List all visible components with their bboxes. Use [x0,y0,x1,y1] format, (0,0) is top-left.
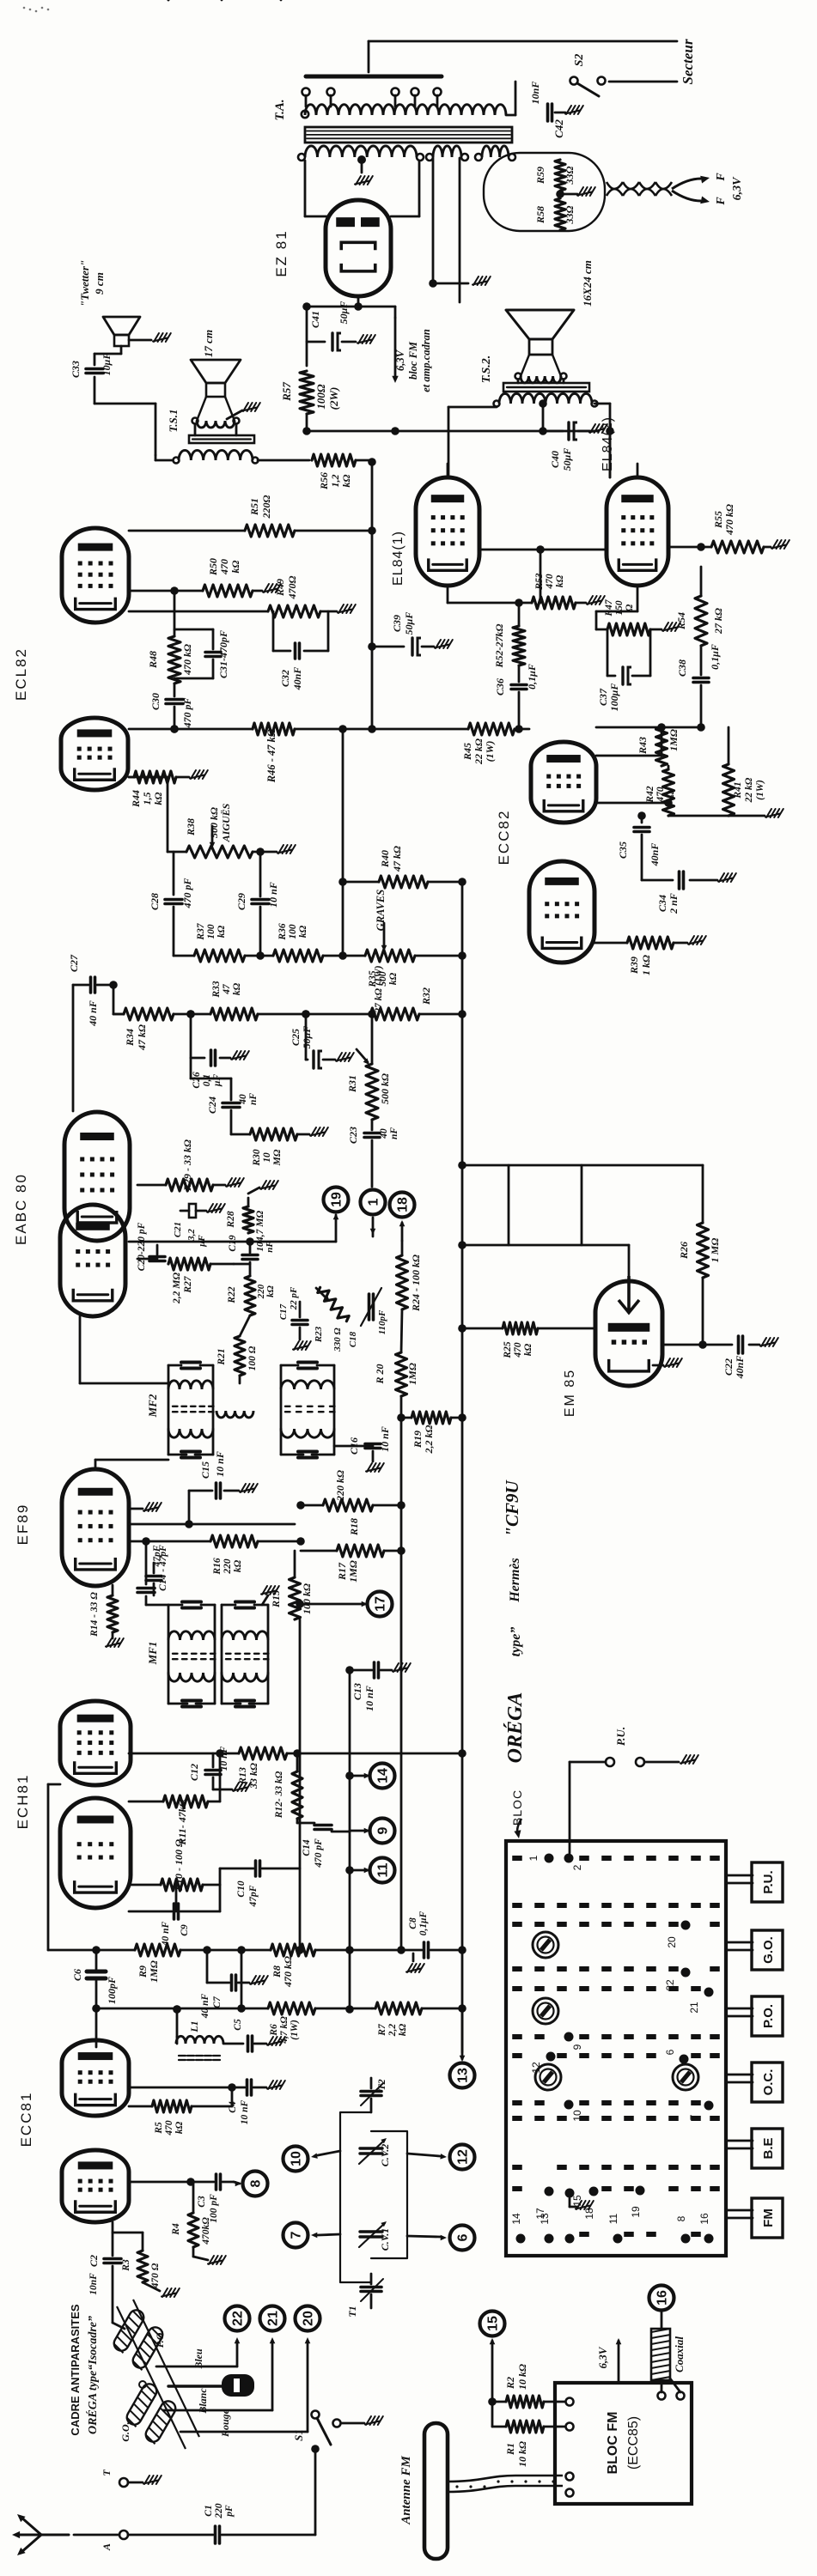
wire bus y1357 [458,878,703,2052]
wire B+ rail [302,427,597,435]
capacitor 47pF [146,1545,162,1595]
svg-text:R32: R32 [420,987,432,1005]
svg-text:C30: C30 [149,693,162,710]
node 19 [129,1188,349,1246]
resistor R46 [253,723,295,783]
resistor R32 [370,965,462,1020]
capacitor C15 [189,1451,258,1498]
svg-text:C39: C39 [391,615,403,632]
svg-text:C8: C8 [408,1917,418,1929]
svg-text:kΩ: kΩ [340,474,352,487]
resistor R16 [129,1535,305,1576]
svg-text:R58: R58 [534,206,546,224]
svg-text:R19: R19 [412,1431,424,1449]
svg-text:R14 - 33 Ω: R14 - 33 Ω [89,1592,100,1637]
svg-text:12: 12 [530,2062,542,2074]
svg-text:C23: C23 [347,1127,359,1144]
label EZ81 [273,229,290,276]
vertical bus x433 [371,460,374,729]
svg-text:R37: R37 [196,922,206,940]
svg-text:(2W): (2W) [327,387,340,410]
svg-text:R17: R17 [336,1562,348,1581]
svg-text:19: 19 [330,1192,344,1207]
speaker 16x24 frame [515,355,567,383]
variable C.V.1 [359,2221,391,2251]
node 15 [480,2312,505,2403]
svg-text:MΩ: MΩ [272,1149,283,1166]
svg-text:A: A [101,2543,113,2551]
resistor R55 [668,504,790,553]
svg-text:6,3V: 6,3V [731,176,744,201]
tube EF89 [62,1469,129,1586]
svg-text:13: 13 [456,2068,471,2083]
resistor R5 [129,2087,232,2136]
svg-text:ECH81: ECH81 [15,1774,31,1830]
svg-text:R11- 47kΩ: R11- 47kΩ [176,1799,188,1845]
capacitor C40 [543,422,607,471]
svg-text:6,3V: 6,3V [394,349,406,371]
svg-text:R24 - 100 kΩ: R24 - 100 kΩ [410,1255,422,1312]
ground R49 [320,605,356,613]
capacitor C30 [149,683,193,733]
svg-text:R36: R36 [277,923,288,940]
svg-text:10 nF: 10 nF [379,1426,391,1452]
transformer T.S.1 winding [174,450,259,463]
svg-text:R52-27kΩ: R52-27kΩ [493,623,505,668]
capacitor C6 [71,1946,118,2013]
svg-text:C42: C42 [552,119,565,138]
capacitor C20 [137,1222,165,1271]
svg-text:R56: R56 [318,472,330,490]
svg-text:7: 7 [688,2114,700,2120]
svg-text:27 kΩ (1W): 27 kΩ (1W) [374,965,384,1013]
wire R26 bottom [698,1278,707,1349]
svg-text:C14: C14 [302,1839,312,1856]
svg-text:10 nF: 10 nF [240,2099,250,2124]
switch S1 [292,2411,383,2536]
svg-text:7: 7 [290,2231,304,2239]
scan specks [23,7,50,13]
svg-text:R9: R9 [137,1965,149,1978]
wire ECC81 plate [95,2008,98,2047]
wire blanc [163,2337,275,2415]
antenna [12,2514,69,2555]
capacitor C39 [368,612,453,655]
svg-text:470 pF: 470 pF [181,697,193,728]
svg-text:19: 19 [630,2206,642,2218]
wire heater loop [484,153,605,231]
svg-text:40 nF: 40 nF [200,1993,210,2019]
svg-text:1: 1 [367,1198,381,1206]
label Antenne FM [399,2456,413,2525]
svg-text:BLOC: BLOC [510,1789,524,1826]
capacitor C10 [220,1861,300,1907]
svg-text:"CF9U: "CF9U [502,1479,522,1536]
resistor R31 pot [346,1010,391,1120]
node 16 [649,2286,674,2330]
svg-text:ECC81: ECC81 [18,2092,34,2148]
svg-text:50μF: 50μF [403,612,415,635]
svg-text:470: 470 [655,787,666,803]
capacitor C4 [129,2080,285,2124]
svg-text:MF1: MF1 [146,1642,159,1666]
speaker tweeter [103,317,140,346]
vertical x349 [300,1396,405,1954]
transformer T.S.2 core [503,380,589,392]
node 17 [296,1592,392,1617]
svg-text:kΩ: kΩ [152,792,164,805]
svg-text:G.O.: G.O. [761,1936,776,1964]
svg-text:R53: R53 [534,573,545,590]
label T.S.1 [167,410,180,433]
svg-text:R8: R8 [271,1965,283,1978]
wire rouge [180,2337,310,2438]
trimmer T1 [346,2274,383,2318]
ground heater [556,187,595,198]
ground tap [355,155,373,185]
svg-text:1,5: 1,5 [141,793,153,805]
capacitor C17 [278,1286,311,1350]
svg-text:C33: C33 [70,361,82,378]
resistor R21 [216,1315,258,1383]
svg-text:Ω: Ω [625,604,635,611]
svg-text:470 pF: 470 pF [314,1838,324,1868]
svg-text:C13: C13 [351,1683,363,1700]
svg-text:10μF: 10μF [101,353,113,376]
ground R50 [253,584,281,592]
svg-text:R33: R33 [211,981,222,998]
tube EABC80 lower [60,1205,125,1316]
terminals P.U. [570,1727,698,1853]
svg-text:47: 47 [222,983,232,995]
svg-text:L1: L1 [188,2020,200,2032]
svg-text:10: 10 [571,2110,583,2122]
svg-text:C.V.1: C.V.1 [379,2228,391,2251]
svg-text:R59: R59 [534,167,546,185]
svg-text:13: 13 [539,2213,551,2225]
svg-text:R55: R55 [712,511,724,529]
label BLOC FM [606,2412,641,2475]
svg-text:R47: R47 [604,598,614,617]
svg-text:ORÉGA type“Isocadre”: ORÉGA type“Isocadre” [85,2316,100,2434]
svg-text:S2: S2 [573,54,586,67]
svg-text:470Ω: 470Ω [286,575,298,599]
svg-text:BLOC FM: BLOC FM [606,2412,620,2475]
resistor R20 [374,1309,418,1396]
svg-text:2 nF: 2 nF [668,893,680,914]
resistor R54 [675,567,724,646]
transformer T.S.1 core [189,424,254,443]
svg-text:kΩ: kΩ [216,925,227,938]
svg-text:16: 16 [698,2213,710,2225]
svg-text:C1: C1 [204,2505,214,2516]
resistor R45 [461,723,515,765]
svg-text:20: 20 [666,1936,678,1948]
svg-text:G.O.: G.O. [119,2421,131,2441]
capacitor C28 [149,852,193,956]
svg-text:R38: R38 [185,818,197,836]
capacitor C42 [529,82,583,138]
capacitor C32 branch [273,611,328,690]
antenne FM feeder [448,2476,563,2492]
resistor R47 [596,588,680,635]
capacitor C36 [494,664,538,733]
svg-text:17: 17 [374,1596,388,1612]
svg-text:R54: R54 [675,612,687,630]
capacitor C8 [350,1911,466,1972]
svg-text:220: 220 [223,1558,233,1575]
node 11 [345,1858,394,1883]
svg-text:S1: S1 [292,2429,305,2441]
svg-text:B.E: B.E [761,2137,776,2159]
tube ECC81 lower [62,2150,129,2222]
resistor R12 [274,1753,302,1819]
ground tweeter [129,333,171,342]
svg-text:R50: R50 [207,558,219,576]
CV frame [340,2112,407,2282]
label ECC82 [496,810,512,866]
capacitor C27 [68,954,113,1111]
svg-text:50μF: 50μF [561,448,573,471]
svg-text:100: 100 [288,924,298,939]
svg-text:C31-470pF: C31-470pF [217,630,229,678]
resistor R11 [129,1753,220,1846]
resistor R40 [343,846,462,888]
svg-text:T2: T2 [375,2079,387,2090]
resistor R29 [137,1139,244,1192]
variable C.V.2 [359,2138,391,2166]
tube EL84(2) [607,477,668,586]
ground 17cm [227,403,260,419]
svg-text:C7: C7 [212,1996,223,2008]
svg-text:22 kΩ: 22 kΩ [473,738,485,765]
T.A. core [305,127,512,143]
svg-text:11: 11 [607,2213,619,2224]
svg-text:9: 9 [376,1826,391,1834]
label CADRE [69,2304,100,2435]
wire ECL82 plate [129,526,376,535]
svg-text:470: 470 [164,2120,174,2136]
svg-text:C2: C2 [88,2255,100,2267]
svg-text:R45: R45 [461,743,473,761]
wire R57 bottom [306,414,308,431]
wire B+ bus [302,302,395,366]
wire EL84 plates top [448,464,637,603]
T.A. secondary 6.3V [426,146,468,161]
svg-text:15: 15 [486,2316,501,2331]
svg-text:220Ω: 220Ω [260,495,272,519]
svg-text:C27: C27 [68,954,80,972]
ground EM85 [653,1358,682,1367]
svg-text:40: 40 [379,1128,389,1139]
svg-text:"Twetter": "Twetter" [78,260,91,307]
svg-text:R39: R39 [628,957,640,975]
node 14 [345,1764,394,1789]
resistor R43 [637,727,680,766]
resistor R17 [301,1545,401,1583]
svg-text:50μF: 50μF [338,301,350,325]
svg-text:C36: C36 [494,678,506,696]
svg-text:150: 150 [614,600,625,616]
svg-text:R1: R1 [504,2443,516,2456]
svg-text:(ECC85): (ECC85) [626,2416,641,2470]
label 17cm [202,330,215,357]
svg-text:1 kΩ: 1 kΩ [640,955,652,975]
svg-text:12: 12 [456,2149,471,2165]
svg-text:1 MΩ: 1 MΩ [709,1238,721,1263]
svg-text:1MΩ: 1MΩ [347,1560,359,1583]
box B.E. [726,2129,783,2168]
tube EZ81 [326,200,391,296]
svg-text:kΩ: kΩ [233,1559,243,1572]
box P.O. [726,1996,783,2036]
svg-text:P.O.: P.O. [154,2330,166,2348]
svg-text:16X24 cm: 16X24 cm [581,260,594,307]
resistor R9 [48,1784,246,1983]
resistor R35 GRAVES [365,890,462,988]
svg-text:kΩ: kΩ [298,925,308,938]
svg-text:100Ω: 100Ω [314,384,327,410]
capacitor C1 [128,2503,315,2543]
svg-text:1: 1 [527,1855,540,1861]
wire EF89 screen [129,1491,295,1528]
svg-text:kΩ: kΩ [265,1285,276,1297]
svg-text:R 20: R 20 [374,1364,386,1384]
box O.C. [726,2063,783,2102]
terminal T [101,2470,162,2487]
svg-text:R7: R7 [377,2023,387,2037]
resistor R10 [129,1839,220,1892]
svg-text:R49: R49 [274,579,286,597]
svg-text:P.O.: P.O. [761,2004,776,2028]
resistor R37 [174,922,273,962]
capacitor C21 [173,1204,225,1248]
node 9 [350,1819,395,1844]
svg-text:R57: R57 [280,382,293,402]
svg-text:kΩ: kΩ [232,982,242,995]
svg-text:R16: R16 [212,1558,223,1575]
bloc FM terminals [566,2392,685,2497]
label ECH81 [15,1774,31,1830]
svg-text:0,1μF: 0,1μF [418,1911,429,1935]
svg-text:kΩ: kΩ [174,2121,185,2134]
svg-text:ECC82: ECC82 [496,810,512,866]
svg-text:R51: R51 [248,498,260,516]
svg-text:470 Ω: 470 Ω [150,2263,161,2288]
svg-text:40: 40 [238,1094,248,1105]
capacitor C37 branch [597,629,650,711]
transformer MF2 secondary [281,0,335,1458]
svg-text:22: 22 [664,1979,676,1991]
svg-text:500 kΩ: 500 kΩ [208,807,220,838]
resistor R23 pot [314,1285,351,1352]
label EL84(2) [601,416,615,471]
tube ECC82 lower [529,861,594,963]
transformer T.S.2 winding [494,393,598,406]
svg-text:R44: R44 [130,790,142,808]
svg-text:EABC 80: EABC 80 [13,1173,29,1245]
resistor R2 [488,2364,565,2408]
svg-text:470 pF: 470 pF [181,878,193,908]
coaxial [651,2329,686,2392]
svg-text:Bleu: Bleu [192,2348,204,2370]
speaker 17cm [191,360,241,397]
svg-text:100 kΩ: 100 kΩ [301,1583,313,1614]
svg-text:Rouge: Rouge [219,2409,231,2438]
label G.O. cadre [119,2330,166,2442]
node 18 [390,1193,415,1242]
wire ECC82 plate right [596,727,662,756]
T.A. secondary HT [298,146,424,161]
resistor R4 [171,2182,226,2264]
svg-text:2,2 kΩ: 2,2 kΩ [423,1425,435,1454]
resistor R34 [109,981,210,1051]
svg-text:C5: C5 [233,2019,243,2031]
svg-text:C18: C18 [348,1331,358,1347]
svg-text:T: T [101,2470,113,2476]
plug bleu [168,2374,254,2397]
resistor R15 [270,1551,313,1619]
resistor R18 [296,1470,401,1536]
capacitor C23 [347,1120,399,1187]
svg-text:μF: μF [197,1235,207,1248]
svg-text:kΩ: kΩ [388,972,399,985]
resistor R52 [493,598,525,668]
ground 6.3V [433,276,491,285]
svg-text:EL84(1): EL84(1) [391,531,405,586]
svg-text:C38: C38 [676,659,688,677]
resistor R38 [168,803,296,858]
svg-text:(1W): (1W) [290,2020,300,2040]
capacitor C22 [722,1336,778,1379]
wire HT right [391,161,419,216]
svg-text:40nF: 40nF [649,843,661,867]
label MF2 [146,1394,159,1418]
svg-text:4,7 MΩ: 4,7 MΩ [255,1211,265,1242]
svg-text:R21: R21 [216,1348,227,1365]
wire mains bottom [609,81,677,83]
label ECL82 [13,647,29,701]
svg-text:C15: C15 [199,1461,211,1479]
svg-text:type”: type” [509,1627,523,1657]
capacitor C14-47pF [137,1537,168,1605]
wire mains top [369,41,677,72]
svg-text:470 kΩ: 470 kΩ [181,644,193,676]
svg-text:2: 2 [571,1864,583,1870]
svg-text:470 kΩ: 470 kΩ [282,1956,294,1988]
label T.S.2 [480,355,493,384]
ground EF89 g3 [129,1503,162,1511]
svg-text:R48: R48 [147,651,159,669]
svg-text:R40: R40 [379,850,391,868]
svg-text:33Ω: 33Ω [564,166,576,185]
svg-text:10nF: 10nF [88,2273,99,2295]
node 21 [260,2306,285,2331]
svg-text:C35: C35 [617,841,629,859]
terminal A [74,2530,128,2551]
svg-text:R34: R34 [124,1029,136,1047]
svg-text:1MΩ: 1MΩ [668,729,680,751]
svg-text:C29: C29 [235,893,247,910]
svg-text:nF: nF [389,1127,399,1139]
resistor R22 [227,1262,276,1315]
wire HT left [305,161,326,216]
wire TS1 left [155,455,173,460]
resistor R8 [241,1944,354,1988]
capacitor C3 [129,2174,234,2223]
svg-text:T.A.: T.A. [273,99,287,120]
svg-text:40nF: 40nF [291,667,303,691]
